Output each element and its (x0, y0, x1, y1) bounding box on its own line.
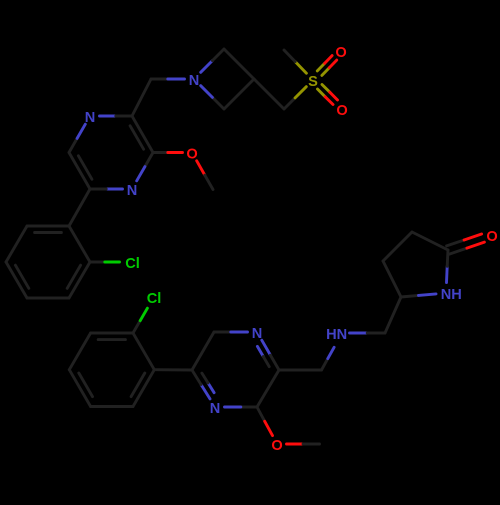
svg-text:O: O (486, 229, 497, 245)
bond bC5-bC6 (192, 332, 214, 370)
svg-text:N: N (127, 183, 138, 199)
bond bN1-bC2 (262, 340, 271, 355)
bond azN-azC2 (201, 61, 213, 73)
bond bN4-bC5 (201, 385, 210, 399)
bond S-O1 (322, 68, 329, 76)
svg-text:NH: NH (441, 287, 462, 303)
bond S-O2 (318, 89, 326, 97)
bond azC2-azC3 (224, 49, 254, 79)
svg-text:Cl: Cl (125, 256, 140, 272)
bond bC5-q2 (154, 368, 192, 371)
bond aC2-aC3 (132, 116, 153, 153)
bond p4-p5 (6, 262, 27, 298)
bond rC3-rC4 (383, 232, 412, 261)
bond rN-rC2 (445, 266, 449, 282)
svg-text:HN: HN (326, 327, 347, 343)
bond aCH2a-azN (151, 78, 168, 81)
bond q1-Cl2 (133, 321, 140, 333)
bond bC3-oB (257, 407, 265, 421)
bond p2-Cl1 (90, 261, 105, 264)
bond rC2-rC3 (412, 232, 448, 250)
bond azC4-azN (212, 97, 224, 109)
bond q1-q2 (133, 333, 154, 370)
svg-text:O: O (335, 45, 346, 61)
svg-text:Cl: Cl (147, 291, 162, 307)
svg-text:N: N (252, 326, 263, 342)
bond rC4-rC5 (383, 261, 401, 297)
bond oB-oBCH3 (287, 443, 304, 446)
bond azC3-azC4 (224, 79, 254, 109)
svg-text:O: O (336, 103, 347, 119)
bond oA-oACH3 (197, 161, 205, 175)
bond nCH2b-rC5 (385, 297, 401, 333)
svg-text:S: S (308, 74, 318, 90)
bond aC3-aN4 (145, 153, 153, 167)
bond aC3-oA (153, 151, 168, 154)
svg-text:N: N (189, 73, 200, 89)
bond q2-q3 (133, 370, 154, 407)
bond p2-p3 (69, 262, 90, 298)
bond p6-p1 (27, 225, 69, 228)
bond S-sCH3 (295, 62, 306, 74)
bond p5-p6 (6, 226, 27, 262)
bond q6-q1 (91, 332, 133, 335)
bond bC2-bC3 (257, 370, 279, 407)
svg-text:N: N (210, 401, 221, 417)
bond aN1-aC2 (100, 115, 116, 118)
bond aC5-p1 (69, 189, 90, 226)
bond rC5-rN (401, 295, 419, 297)
bond q4-q5 (69, 370, 90, 407)
bond aC5-aC6 (69, 153, 90, 190)
bond sCH2-S (284, 98, 295, 109)
svg-text:N: N (85, 110, 96, 126)
bond bC3-bN4 (241, 406, 257, 409)
bond q3-q4 (91, 405, 133, 408)
bond bCH2-hnN (322, 359, 328, 370)
bond rC2-rO (449, 248, 467, 254)
bond p3-p4 (27, 297, 69, 300)
bond azC3-sCH2 (254, 79, 284, 109)
bond q5-q6 (69, 333, 90, 370)
bond p1-p2 (69, 226, 90, 262)
bond bC2-bCH2 (279, 369, 322, 372)
bond aN4-aC5 (106, 188, 122, 191)
bond aC2-aCH2a (132, 79, 151, 116)
svg-text:O: O (271, 438, 282, 454)
bond bC6-bN1 (214, 331, 231, 334)
bond aC6-aN1 (69, 138, 77, 152)
svg-text:O: O (186, 146, 197, 162)
bond hnN-nCH2b (350, 332, 368, 335)
